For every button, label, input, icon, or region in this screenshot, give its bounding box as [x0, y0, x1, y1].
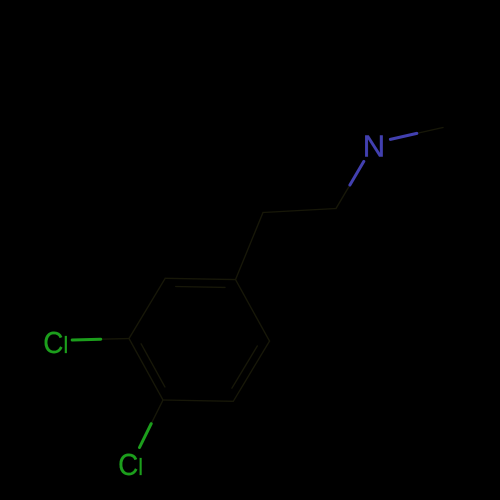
svg-text:N: N: [363, 129, 385, 164]
